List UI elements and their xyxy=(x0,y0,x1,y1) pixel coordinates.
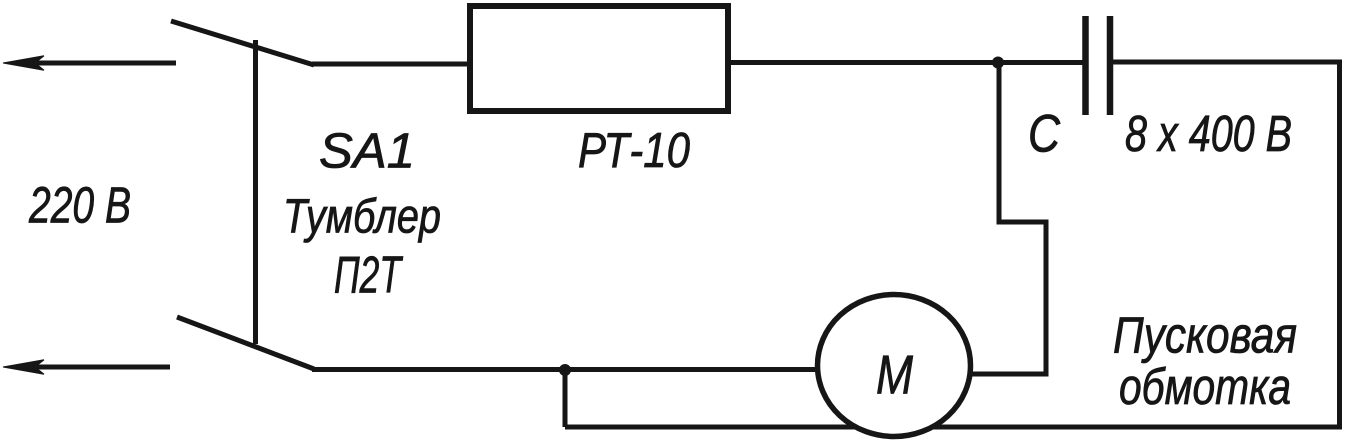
motor M circle xyxy=(818,295,971,437)
wire: capacitor right plate to right rail xyxy=(1112,60,1342,65)
svg-text:П2Т: П2Т xyxy=(334,247,403,305)
capacitor C plates xyxy=(1086,16,1111,115)
wire: drop from bottom junction xyxy=(563,370,568,427)
junction node at bottom branch xyxy=(559,364,571,376)
junction node at capacitor branch xyxy=(992,57,1004,69)
arrow to 220V top xyxy=(3,56,44,70)
switch SA1 pole 1 blade xyxy=(171,21,314,65)
wire: bottom feed to 220V xyxy=(36,365,170,370)
svg-text:М: М xyxy=(876,344,913,406)
svg-text:РТ-10: РТ-10 xyxy=(578,124,690,178)
wire: top feed to 220V xyxy=(36,61,176,66)
switch SA1 mechanical link xyxy=(253,40,258,344)
thermal relay RT-10 box xyxy=(470,6,728,111)
wire: bottom main run to motor xyxy=(312,367,820,372)
svg-text:Тумблер: Тумблер xyxy=(283,191,441,244)
svg-text:SA1: SA1 xyxy=(319,125,415,179)
switch SA1 pole 2 blade xyxy=(177,317,314,369)
wire: jog from capacitor junction down to motor right side xyxy=(968,63,1046,375)
svg-text:220 В: 220 В xyxy=(28,177,131,234)
svg-text:C: C xyxy=(1028,105,1061,164)
svg-text:обмотка: обмотка xyxy=(1119,358,1291,415)
wire: switch to RT-10 box xyxy=(312,62,470,67)
wire: RT-10 to junction and capacitor xyxy=(728,60,1083,65)
svg-text:Пусковая: Пусковая xyxy=(1113,307,1297,364)
svg-text:8 x 400 В: 8 x 400 В xyxy=(1125,105,1292,162)
wire: bottom of starting winding loop xyxy=(565,425,1342,430)
arrow to 220V bottom xyxy=(3,360,44,374)
wire: right rail vertical xyxy=(1337,60,1342,430)
